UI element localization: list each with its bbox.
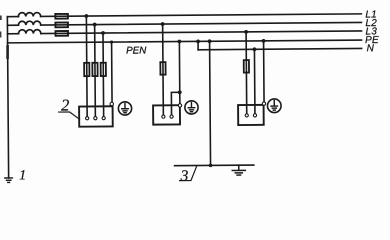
transformer winding phase A (18, 13, 40, 17)
node PEN tap for load 2 case (110, 40, 113, 43)
terminal pin circle right a (245, 114, 248, 117)
label L2 (366, 19, 377, 26)
label 2 leader line (59, 112, 80, 119)
terminal pin circle load2 a (86, 117, 89, 120)
right load enclosure box (238, 105, 264, 125)
node PEN tap middle load (177, 40, 181, 44)
ground electrode symbol at bus (232, 165, 245, 175)
wire L3 drop to right load (245, 32, 248, 114)
node L3 tap right load (244, 30, 248, 34)
wire jog to N terminal of middle load (171, 92, 180, 115)
label PE (365, 36, 378, 43)
fuse FU5 (92, 63, 97, 76)
label 3 leader line (180, 166, 197, 180)
wire N split step (197, 41, 199, 49)
load 2 enclosure box (79, 106, 113, 126)
node bus junction (209, 164, 213, 168)
terminal pin circle right b (253, 114, 256, 117)
transformer winding phase B (18, 21, 40, 25)
transformer winding phase C (18, 30, 40, 34)
wire PEN re-earthing drop (209, 41, 212, 165)
scan artifact specks at left edge (0, 16, 2, 38)
node middle PEN/case junction (178, 90, 182, 94)
fuse FU2 (55, 22, 68, 27)
wire N drop to right load (253, 49, 256, 113)
terminal pin circle middle a (162, 115, 165, 118)
node N tap right load (253, 47, 257, 51)
node L3 tap (101, 31, 105, 35)
wire L3 drop to load 2 (102, 33, 105, 116)
node L1 tap (84, 14, 88, 18)
wire PE drop to right load case (263, 41, 265, 102)
case terminal circle load2 (110, 102, 113, 105)
label 2 (61, 100, 69, 111)
wire stub winding C to neutral bus (8, 33, 19, 35)
protective earth circled symbol middle (185, 101, 198, 114)
earthing conductor of neutral point (8, 43, 9, 178)
wire L2 drop to middle load (162, 24, 165, 115)
fuse FU8 (244, 60, 249, 73)
fuse FU3 (55, 31, 68, 36)
middle load enclosure box (153, 105, 180, 124)
label L3 (366, 27, 377, 34)
label 1 (20, 170, 25, 179)
wire L2 drop to load 2 (94, 25, 97, 117)
fuse FU6 (101, 63, 106, 76)
node PEN split to N (196, 39, 200, 43)
wire line N (198, 48, 361, 49)
protective earth circled symbol right (267, 99, 281, 113)
ground electrode symbol (1) (5, 178, 13, 183)
wire line L3 (through fuse FU3) (41, 31, 362, 34)
label PEN (126, 47, 146, 54)
wire PEN to load2 case (111, 42, 113, 102)
wire stub winding A to neutral bus (7, 16, 18, 18)
protective earth circled symbol load2 (118, 102, 131, 115)
wire line L1 (through fuse FU1) (41, 14, 362, 17)
fuse FU4 (84, 63, 89, 76)
wire stub winding B to neutral bus (7, 24, 18, 26)
label 3 (181, 170, 188, 180)
wire neutral-point vertical (6, 17, 8, 43)
ground bus (3) (175, 164, 254, 167)
terminal pin circle load2 b (94, 117, 97, 120)
scan smudge on left earthing wire (6, 45, 9, 59)
case terminal circle middle (178, 104, 181, 107)
fuse FU1 (55, 14, 68, 19)
wire PEN conductor / PE line (8, 40, 362, 43)
fuse FU7 (160, 62, 165, 75)
node L2 tap (93, 23, 97, 27)
case terminal circle right (262, 102, 265, 105)
wire PEN drop to middle load (178, 42, 180, 104)
wire L1 drop to load 2 (85, 16, 88, 116)
wire line L2 (through fuse FU2) (41, 22, 362, 25)
label N (367, 44, 374, 51)
terminal pin circle load2 c (102, 117, 105, 120)
node PE tap right load (262, 39, 266, 43)
label L1 (366, 10, 376, 17)
node PEN tap re-earthing (208, 39, 212, 43)
node L2 tap middle load (161, 22, 165, 26)
terminal pin circle middle b (170, 115, 173, 118)
